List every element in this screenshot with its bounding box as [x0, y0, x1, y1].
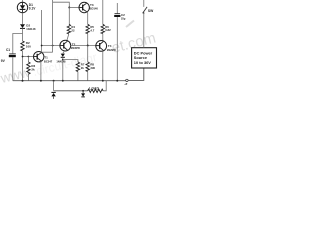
svg-text:-e: -e [124, 82, 127, 86]
wire box top lead [143, 13, 145, 48]
capacitor C1 [9, 54, 16, 56]
wire load right riser [103, 81, 106, 91]
node junction [82, 90, 84, 92]
node junction [116, 80, 118, 82]
ground rail [13, 80, 126, 82]
node junction [62, 59, 64, 61]
node junction [22, 56, 24, 58]
wire R7 to rail [77, 72, 79, 81]
wire T1 base [23, 56, 34, 58]
resistor R3 [27, 62, 30, 74]
resistor R7 [76, 62, 79, 72]
box DC power source [132, 48, 157, 68]
label D1 9.1V [29, 3, 36, 11]
label T1 BC547 [44, 56, 53, 64]
wire R8 to rail [87, 72, 89, 81]
svg-text:D2: D2 [26, 23, 30, 27]
resistor R4 [67, 24, 70, 34]
label T4 2N2955 [107, 44, 117, 52]
svg-text:1N4148: 1N4148 [56, 60, 66, 64]
label C2 25u [121, 13, 126, 21]
label R4 22 [71, 25, 75, 32]
label R6 0.82 [105, 25, 111, 32]
wire T3 base [69, 7, 79, 9]
wire T3 collector down [86, 12, 89, 24]
wire R4 to T2 [67, 34, 69, 40]
wire column above R6 [102, 0, 104, 24]
svg-text:C1: C1 [6, 48, 10, 52]
svg-text:BD140: BD140 [90, 7, 99, 11]
node junction [62, 80, 64, 82]
wire D1 to D2 [22, 13, 24, 25]
label T2 2N3055 [71, 42, 81, 50]
svg-text:390: 390 [90, 66, 95, 70]
svg-text:BC547: BC547 [44, 59, 53, 63]
label T3 BD140 [90, 3, 99, 11]
node junction [28, 56, 30, 58]
wire D2 to junction [22, 28, 24, 41]
diode D2 [20, 24, 25, 28]
transistor T4 [95, 41, 106, 52]
svg-text:4.7: 4.7 [90, 28, 94, 32]
wire vertical column [52, 0, 54, 52]
node junction [22, 80, 24, 82]
diode D3 [51, 92, 55, 99]
label D2 1N4148 [26, 23, 36, 31]
svg-text:2N2955: 2N2955 [107, 48, 117, 52]
wire T4 emitter to rail [102, 51, 104, 81]
wire load loop horizontal [54, 90, 88, 92]
svg-text:2N3055: 2N3055 [71, 46, 81, 50]
watermark fragment [126, 21, 134, 28]
wire branch left to C1 [13, 34, 23, 54]
node junction [102, 80, 104, 82]
node junction [68, 7, 70, 9]
svg-text:100: 100 [26, 45, 31, 49]
wire down to R4 [68, 8, 70, 25]
wire R3 to rail [27, 74, 29, 81]
wire base of T2 [42, 45, 60, 47]
wire top stub above D1 [22, 0, 24, 2]
label R8 390 [90, 63, 95, 70]
wire R2 down to rail [22, 51, 24, 81]
wire D4 to rail [62, 57, 64, 80]
node junction [53, 80, 55, 82]
svg-text:SW: SW [148, 9, 154, 13]
label R3 2k [31, 64, 35, 72]
wire load loop down [53, 81, 55, 91]
svg-text:10 to 36V: 10 to 36V [134, 60, 151, 65]
svg-text:T1: T1 [44, 56, 48, 60]
svg-text:22: 22 [71, 28, 75, 32]
node junction [41, 45, 43, 47]
watermark [0, 29, 158, 86]
diode D4 [61, 54, 65, 58]
transistor T2 [60, 40, 71, 51]
svg-text:2k: 2k [81, 66, 85, 70]
svg-text:0.82: 0.82 [105, 28, 111, 32]
transistor T3 [79, 2, 89, 12]
node junction [87, 45, 89, 47]
svg-text:1N4148: 1N4148 [26, 27, 36, 31]
node junction [52, 45, 54, 47]
label D4 1N4148 [56, 60, 66, 64]
wire node to R7 [63, 60, 78, 62]
svg-text:T4: T4 [108, 44, 112, 48]
label R5 4.7 [90, 25, 94, 32]
zener diode D1 [17, 2, 27, 12]
svg-text:LOAD: LOAD [89, 86, 99, 90]
resistor R5 [86, 24, 89, 33]
wire R6 to T4 [102, 34, 104, 41]
label R2 100 [26, 41, 31, 49]
wire column above T1 collector [41, 10, 43, 52]
wire R5 down to base wire [87, 34, 89, 46]
transistor T1 [34, 52, 44, 62]
svg-text:T3: T3 [90, 3, 94, 7]
capacitor C2 [114, 14, 120, 16]
switch SW [143, 0, 148, 14]
wire down to R8 [87, 46, 89, 62]
svg-text:25µ: 25µ [121, 16, 126, 20]
resistor R6 [101, 24, 104, 33]
node junction [40, 80, 42, 82]
resistor R8 [86, 62, 89, 72]
terminal circle negative [126, 79, 128, 81]
wire corner to T1 top [42, 51, 53, 53]
label R7 2k [81, 63, 85, 70]
wire top rail [53, 2, 70, 7]
diode D5 [81, 91, 85, 97]
svg-text:9.1V: 9.1V [29, 7, 36, 11]
svg-text:2k: 2k [31, 68, 35, 72]
resistor R2 [21, 41, 24, 51]
wire T2 to T4 base [71, 45, 96, 47]
resistor LOAD [88, 89, 104, 92]
wire C2 top [116, 3, 118, 13]
wire T1 emitter to rail [40, 61, 42, 81]
svg-text:C2: C2 [121, 13, 125, 17]
wire T2 emitter to D4 [63, 51, 65, 54]
wire C1 to rail [12, 57, 14, 80]
wire C2 to rail [116, 17, 118, 81]
wire R3 top stub [27, 57, 29, 63]
wire terminal to box [128, 68, 144, 80]
